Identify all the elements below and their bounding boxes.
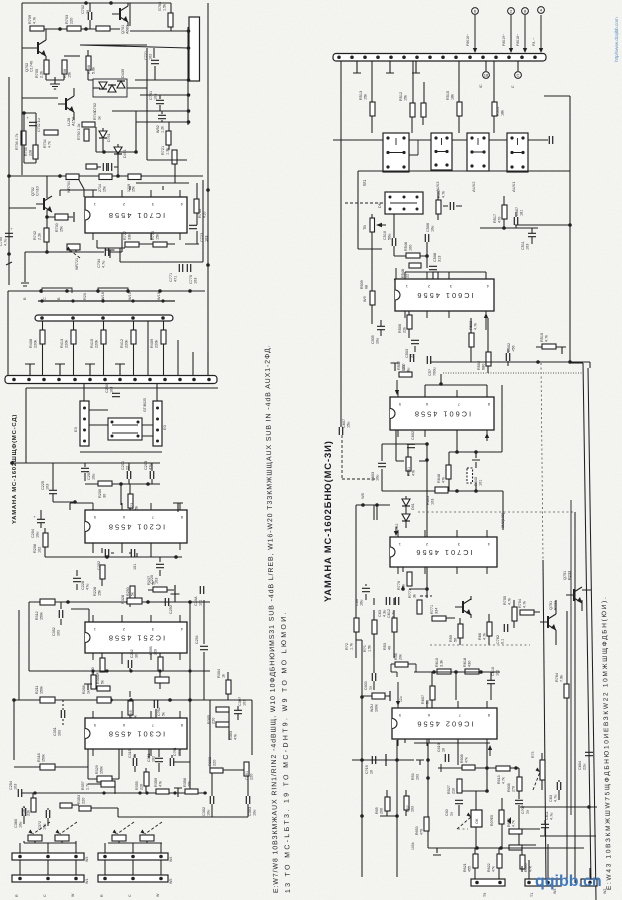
svg-text:R608: R608 bbox=[460, 754, 464, 763]
svg-text:C508: C508 bbox=[433, 253, 437, 262]
svg-text:qqibb.cn: qqibb.cn bbox=[535, 873, 602, 890]
wire bbox=[26, 388, 218, 463]
ground stub bbox=[412, 61, 420, 73]
junction bbox=[91, 669, 94, 672]
resistor VR bbox=[55, 835, 69, 841]
svg-text:4.3u: 4.3u bbox=[383, 610, 387, 617]
svg-text:10u: 10u bbox=[376, 338, 380, 344]
junction bbox=[455, 489, 459, 493]
svg-text:R412: R412 bbox=[120, 339, 124, 348]
svg-text:181: 181 bbox=[520, 210, 524, 216]
wire bbox=[396, 740, 398, 877]
capacitor stub bbox=[106, 250, 115, 258]
svg-text:4.7k: 4.7k bbox=[48, 141, 52, 148]
wire bbox=[458, 828, 468, 830]
capacitor C735 bbox=[108, 163, 111, 171]
wire bbox=[127, 3, 129, 26]
wire bbox=[147, 159, 187, 161]
svg-text:C204: C204 bbox=[31, 529, 35, 538]
pot wiper bbox=[33, 822, 50, 834]
capacitor C734 bbox=[105, 248, 108, 256]
capacitor C733 bbox=[103, 163, 106, 171]
junction bbox=[145, 791, 148, 794]
resistor R719 bbox=[128, 174, 141, 180]
resistor R546 bbox=[406, 253, 420, 258]
svg-text:W18: W18 bbox=[101, 292, 105, 300]
capacitor C511 bbox=[528, 233, 536, 236]
wire bbox=[356, 505, 390, 618]
svg-text:220k: 220k bbox=[65, 340, 69, 348]
wire bbox=[522, 829, 540, 845]
resistor R413 bbox=[71, 330, 76, 344]
svg-text:R303: R303 bbox=[229, 731, 233, 740]
bus bar bbox=[5, 376, 217, 384]
resistor R622 bbox=[497, 854, 502, 868]
wire bbox=[148, 321, 208, 376]
wire bbox=[536, 346, 558, 348]
junction bbox=[156, 429, 159, 432]
svg-text:C607: C607 bbox=[342, 419, 346, 428]
svg-text:103: 103 bbox=[46, 484, 50, 490]
svg-text:455: 455 bbox=[468, 866, 472, 872]
svg-text:R58: R58 bbox=[394, 653, 398, 660]
svg-text:1.5k: 1.5k bbox=[368, 645, 372, 652]
svg-text:R771: R771 bbox=[430, 605, 434, 614]
svg-text:5k: 5k bbox=[162, 712, 166, 716]
junction bbox=[138, 791, 141, 794]
wire bbox=[480, 227, 538, 229]
wire bbox=[24, 252, 26, 282]
svg-text:IC201 4558: IC201 4558 bbox=[107, 523, 165, 532]
junction bbox=[158, 669, 161, 672]
op-amp IC301 4558 bbox=[85, 718, 187, 749]
svg-text:R211: R211 bbox=[35, 686, 39, 694]
svg-text:R200: R200 bbox=[98, 489, 102, 498]
junction bbox=[83, 418, 86, 421]
wire bbox=[14, 749, 88, 767]
svg-text:W4: W4 bbox=[169, 857, 173, 862]
resistor R771 bbox=[432, 616, 446, 621]
wire bbox=[18, 610, 20, 700]
wire bbox=[428, 847, 584, 849]
transistor Q702 bbox=[37, 42, 39, 54]
svg-text:334: 334 bbox=[435, 608, 439, 614]
svg-text:R607: R607 bbox=[421, 695, 425, 704]
resistor WR701 bbox=[66, 174, 79, 180]
resistor W24 bbox=[372, 693, 385, 699]
junction bbox=[360, 695, 364, 699]
junction bbox=[134, 150, 138, 154]
svg-text:C732 1u: C732 1u bbox=[37, 118, 41, 132]
end tick bbox=[6, 254, 12, 265]
svg-text:18: 18 bbox=[484, 73, 489, 78]
capacitor C619 bbox=[445, 754, 448, 762]
wire bbox=[145, 768, 147, 793]
svg-text:C602: C602 bbox=[411, 431, 415, 440]
capacitor stub bbox=[391, 363, 400, 371]
junction bbox=[109, 698, 113, 702]
svg-text:C?34: C?34 bbox=[97, 259, 101, 268]
junction bbox=[146, 482, 150, 486]
svg-text:R727: R727 bbox=[123, 231, 127, 240]
wire bbox=[486, 61, 518, 71]
svg-text:R24?: R24? bbox=[147, 576, 151, 585]
arrow bbox=[474, 15, 476, 50]
svg-text:C5?: C5? bbox=[428, 369, 432, 376]
wire bbox=[574, 512, 576, 883]
svg-text:R735: R735 bbox=[24, 147, 28, 156]
wire bbox=[459, 779, 487, 791]
resistor R318 bbox=[40, 764, 55, 770]
wire bbox=[8, 77, 10, 176]
svg-text:R: R bbox=[15, 894, 19, 897]
arrowhead bbox=[507, 817, 511, 824]
wire bbox=[333, 139, 383, 141]
svg-text:IC251 4558: IC251 4558 bbox=[107, 634, 165, 643]
svg-text:YAMAHA MC-1602БНЮ(MC-3И): YAMAHA MC-1602БНЮ(MC-3И) bbox=[322, 440, 333, 602]
junction bbox=[389, 208, 392, 211]
svg-text:IC601 4558: IC601 4558 bbox=[413, 410, 471, 419]
resistor R211 bbox=[40, 697, 55, 703]
junction bbox=[129, 698, 133, 702]
wire bbox=[358, 171, 570, 249]
wire bbox=[382, 444, 427, 491]
svg-text:R736 4.7k: R736 4.7k bbox=[15, 133, 19, 150]
svg-text:C60: C60 bbox=[445, 809, 449, 816]
svg-text:R62?: R62? bbox=[507, 818, 511, 827]
wire bbox=[105, 843, 161, 853]
svg-text:IC601 4556: IC601 4556 bbox=[415, 291, 473, 300]
svg-text:R527: R527 bbox=[447, 785, 451, 794]
junction bbox=[131, 299, 134, 302]
svg-text:C: C bbox=[517, 73, 520, 78]
svg-text:R509: R509 bbox=[360, 280, 364, 289]
resistor R519b bbox=[542, 344, 556, 349]
svg-text:R764: R764 bbox=[555, 673, 559, 682]
svg-text:W1: W1 bbox=[85, 879, 89, 884]
svg-text:R512: R512 bbox=[399, 92, 403, 101]
svg-text:R66: R66 bbox=[478, 633, 482, 640]
svg-text:1.5k: 1.5k bbox=[163, 4, 167, 11]
svg-text:R556: R556 bbox=[149, 646, 153, 655]
wire bbox=[85, 463, 160, 484]
svg-text:10u: 10u bbox=[36, 532, 40, 538]
wire bbox=[29, 670, 210, 672]
svg-text:4.7k: 4.7k bbox=[508, 598, 512, 605]
connector 2 bbox=[508, 8, 515, 15]
capacitor C610 bbox=[487, 680, 495, 683]
resistor R547 bbox=[436, 200, 441, 214]
wire bbox=[544, 96, 570, 363]
junction bbox=[116, 174, 120, 178]
wire bbox=[393, 214, 395, 256]
connector E3 bbox=[80, 401, 89, 446]
resistor R512 bbox=[410, 103, 415, 117]
svg-text:1k: 1k bbox=[222, 674, 226, 678]
junction bbox=[485, 789, 489, 793]
wire bbox=[449, 385, 502, 452]
svg-text:33k: 33k bbox=[128, 234, 132, 240]
op-amp IC601 4556 bbox=[395, 279, 494, 311]
resistor R359 bbox=[156, 789, 169, 794]
svg-text:0.1: 0.1 bbox=[501, 639, 505, 644]
capacitor C362b bbox=[46, 810, 49, 818]
junction bbox=[587, 805, 591, 809]
resistor R755 bbox=[512, 607, 517, 621]
cap end bbox=[73, 212, 75, 222]
capacitor C351 bbox=[155, 758, 163, 761]
junction bbox=[40, 299, 43, 302]
junction bbox=[96, 289, 100, 293]
svg-text:R755: R755 bbox=[503, 596, 507, 605]
capacitor C228 bbox=[73, 578, 81, 581]
resistor R200 bbox=[98, 481, 112, 486]
pot wiper bbox=[60, 822, 77, 834]
svg-text:220: 220 bbox=[212, 718, 216, 724]
junction bbox=[33, 791, 36, 794]
resistor R764 bbox=[564, 684, 569, 698]
resistor R2x bbox=[97, 697, 111, 703]
svg-text:R770: R770 bbox=[397, 581, 401, 590]
resistor R514 bbox=[492, 102, 497, 116]
svg-text:150k: 150k bbox=[40, 686, 44, 694]
resistor R65 bbox=[385, 797, 390, 811]
wire bbox=[444, 767, 462, 769]
svg-text:10u: 10u bbox=[207, 810, 211, 816]
wire bbox=[14, 699, 210, 701]
bracket W20 bbox=[98, 288, 128, 293]
junction bbox=[187, 29, 191, 33]
svg-text:C771: C771 bbox=[169, 273, 173, 282]
cap pin5 bbox=[173, 503, 183, 512]
resistor R548 bbox=[409, 263, 421, 268]
capacitor C770 bbox=[187, 264, 190, 272]
svg-text:47k: 47k bbox=[234, 734, 238, 740]
transistor Q751 bbox=[547, 616, 549, 628]
svg-text:18k: 18k bbox=[501, 110, 505, 116]
svg-text:W5: W5 bbox=[169, 879, 173, 884]
svg-text:220: 220 bbox=[250, 774, 254, 780]
wire bbox=[372, 61, 494, 103]
svg-text:C201: C201 bbox=[121, 461, 125, 470]
svg-text:AUX2: AUX2 bbox=[471, 181, 476, 192]
junction bbox=[137, 435, 140, 438]
junction bbox=[156, 440, 159, 443]
resistor R507 bbox=[399, 372, 412, 377]
resistor R329 bbox=[97, 776, 112, 782]
svg-text:102: 102 bbox=[38, 547, 42, 553]
svg-text:C505: C505 bbox=[371, 335, 375, 344]
svg-text:W: W bbox=[71, 893, 75, 897]
svg-text:100k: 100k bbox=[411, 842, 415, 850]
wire bbox=[140, 95, 188, 111]
wire bbox=[135, 79, 188, 81]
svg-text:15u: 15u bbox=[347, 422, 351, 428]
junction bbox=[206, 263, 210, 267]
pot wiper bbox=[145, 822, 162, 834]
svg-text:R355: R355 bbox=[135, 781, 139, 790]
junction bbox=[83, 429, 86, 432]
svg-text:150k: 150k bbox=[40, 612, 44, 620]
wire bbox=[62, 700, 64, 725]
wire bbox=[475, 791, 477, 848]
resistor R3? bbox=[60, 803, 72, 808]
svg-text:R6?: R6? bbox=[406, 805, 410, 812]
resistor R727 bbox=[125, 242, 139, 247]
junction bbox=[39, 289, 43, 293]
resistor Rm bbox=[86, 164, 97, 169]
svg-text:22k: 22k bbox=[27, 810, 31, 816]
jack strip bbox=[525, 879, 561, 886]
svg-text:47k: 47k bbox=[442, 477, 446, 483]
resistor R256 bbox=[158, 657, 163, 671]
svg-text:4.7k: 4.7k bbox=[512, 820, 516, 827]
resistor R613 bbox=[496, 766, 510, 771]
wire bbox=[540, 835, 596, 837]
wire bbox=[187, 27, 189, 125]
wire bbox=[169, 792, 207, 794]
svg-text:C262: C262 bbox=[130, 649, 134, 658]
svg-text:E0: E0 bbox=[162, 424, 167, 430]
svg-text:1u: 1u bbox=[450, 812, 454, 816]
svg-text:220k: 220k bbox=[95, 340, 99, 348]
junction bbox=[187, 46, 191, 50]
resistor R304 bbox=[226, 680, 231, 694]
svg-text:C?51: C?51 bbox=[173, 747, 177, 756]
resistor C301 bbox=[244, 762, 249, 776]
resistor VR bbox=[28, 835, 42, 841]
junction bbox=[474, 450, 478, 454]
capacitor C603 bbox=[378, 463, 386, 466]
capacitor C252 bbox=[154, 700, 157, 708]
svg-text:P8019~: P8019~ bbox=[502, 34, 506, 46]
wire bbox=[130, 30, 188, 32]
diode D703 bbox=[108, 85, 116, 92]
svg-text:C302: C302 bbox=[202, 807, 206, 816]
resistor R59 bbox=[458, 624, 463, 638]
junction bbox=[426, 776, 430, 780]
capacitor C250 bbox=[112, 393, 120, 396]
switch DIN bbox=[385, 192, 423, 214]
wire bbox=[64, 55, 80, 57]
wire bbox=[7, 291, 9, 375]
wire bbox=[475, 767, 496, 769]
resistor TB bbox=[370, 218, 375, 232]
diode D451 bbox=[114, 147, 122, 154]
svg-text:40k: 40k bbox=[188, 781, 192, 787]
wire bbox=[73, 88, 75, 120]
svg-text:C503: C503 bbox=[405, 349, 409, 358]
ground bbox=[50, 77, 60, 89]
svg-text:10u: 10u bbox=[431, 226, 435, 232]
wire bbox=[362, 695, 390, 697]
wire bbox=[93, 543, 160, 576]
svg-text:Q751: Q751 bbox=[549, 601, 553, 610]
svg-text:5k: 5k bbox=[152, 581, 156, 585]
svg-text:R517: R517 bbox=[493, 214, 497, 223]
svg-text:R328: R328 bbox=[121, 595, 125, 604]
svg-text:TB: TB bbox=[363, 225, 367, 230]
wire bbox=[79, 180, 84, 197]
resistor R601 bbox=[467, 468, 473, 483]
connector 4 bbox=[538, 7, 545, 14]
svg-text:220: 220 bbox=[140, 784, 144, 790]
wire bbox=[28, 602, 30, 671]
resistor R412 bbox=[131, 330, 136, 344]
svg-text:C612: C612 bbox=[387, 609, 391, 618]
switch AUX3 bbox=[431, 133, 452, 170]
capacitor C602 bbox=[407, 444, 415, 447]
svg-text:IC701 4558: IC701 4558 bbox=[107, 211, 165, 220]
wire bbox=[570, 500, 572, 815]
wire bbox=[345, 202, 385, 204]
wire bbox=[371, 214, 373, 291]
svg-text:471: 471 bbox=[174, 276, 178, 282]
svg-text:103: 103 bbox=[526, 244, 530, 250]
capacitor C510 bbox=[392, 238, 395, 246]
jack strip bbox=[471, 879, 505, 886]
junction bbox=[454, 670, 458, 674]
jack strip bbox=[98, 853, 168, 860]
wire bbox=[121, 484, 130, 510]
svg-text:C203: C203 bbox=[144, 461, 148, 470]
arrow bbox=[486, 436, 488, 441]
resistor R742 bbox=[44, 228, 49, 242]
resistor R714 bbox=[99, 174, 112, 180]
wire bbox=[414, 671, 500, 673]
wire bbox=[38, 300, 175, 302]
resistor R750 bbox=[84, 129, 89, 141]
junction bbox=[479, 670, 483, 674]
junction bbox=[188, 698, 192, 702]
svg-text:R73: R73 bbox=[531, 752, 535, 758]
wire bbox=[77, 548, 102, 590]
wire bbox=[409, 311, 415, 352]
capacitor C63 bbox=[386, 597, 389, 605]
connector C bbox=[515, 72, 522, 79]
wire bbox=[409, 140, 418, 155]
capacitor C612 bbox=[395, 597, 398, 605]
connector 8 bbox=[522, 8, 529, 15]
svg-text:R312: R312 bbox=[35, 611, 39, 620]
junction bbox=[188, 600, 192, 604]
svg-text:56u: 56u bbox=[388, 234, 392, 240]
wire bbox=[105, 860, 161, 875]
svg-text:R703: R703 bbox=[65, 15, 69, 24]
svg-text:AUX1: AUX1 bbox=[511, 181, 516, 192]
svg-text:10: 10 bbox=[442, 748, 446, 752]
svg-text:R622: R622 bbox=[487, 863, 491, 872]
svg-text:220k: 220k bbox=[155, 340, 159, 348]
capacitor C50? bbox=[427, 356, 430, 364]
svg-text:+56: +56 bbox=[512, 346, 516, 352]
capacitor C254 bbox=[18, 789, 21, 797]
svg-text:R329: R329 bbox=[95, 765, 99, 774]
svg-text:W2U: W2U bbox=[370, 704, 374, 712]
svg-text:YAMAHA MC-1602ШЩФ(MC-CД): YAMAHA MC-1602ШЩФ(MC-CД) bbox=[12, 414, 18, 524]
wire bbox=[8, 290, 205, 292]
junction bbox=[389, 196, 392, 199]
resistor R353 bbox=[79, 806, 91, 811]
svg-text:IC301 4558: IC301 4558 bbox=[107, 730, 165, 739]
wire bbox=[391, 664, 416, 677]
svg-text:R749: R749 bbox=[93, 111, 97, 120]
resistor R250 bbox=[127, 598, 142, 604]
wire bbox=[212, 770, 248, 817]
svg-text:10: 10 bbox=[370, 770, 374, 774]
junction bbox=[455, 450, 459, 454]
svg-text:Q702: Q702 bbox=[31, 187, 35, 196]
